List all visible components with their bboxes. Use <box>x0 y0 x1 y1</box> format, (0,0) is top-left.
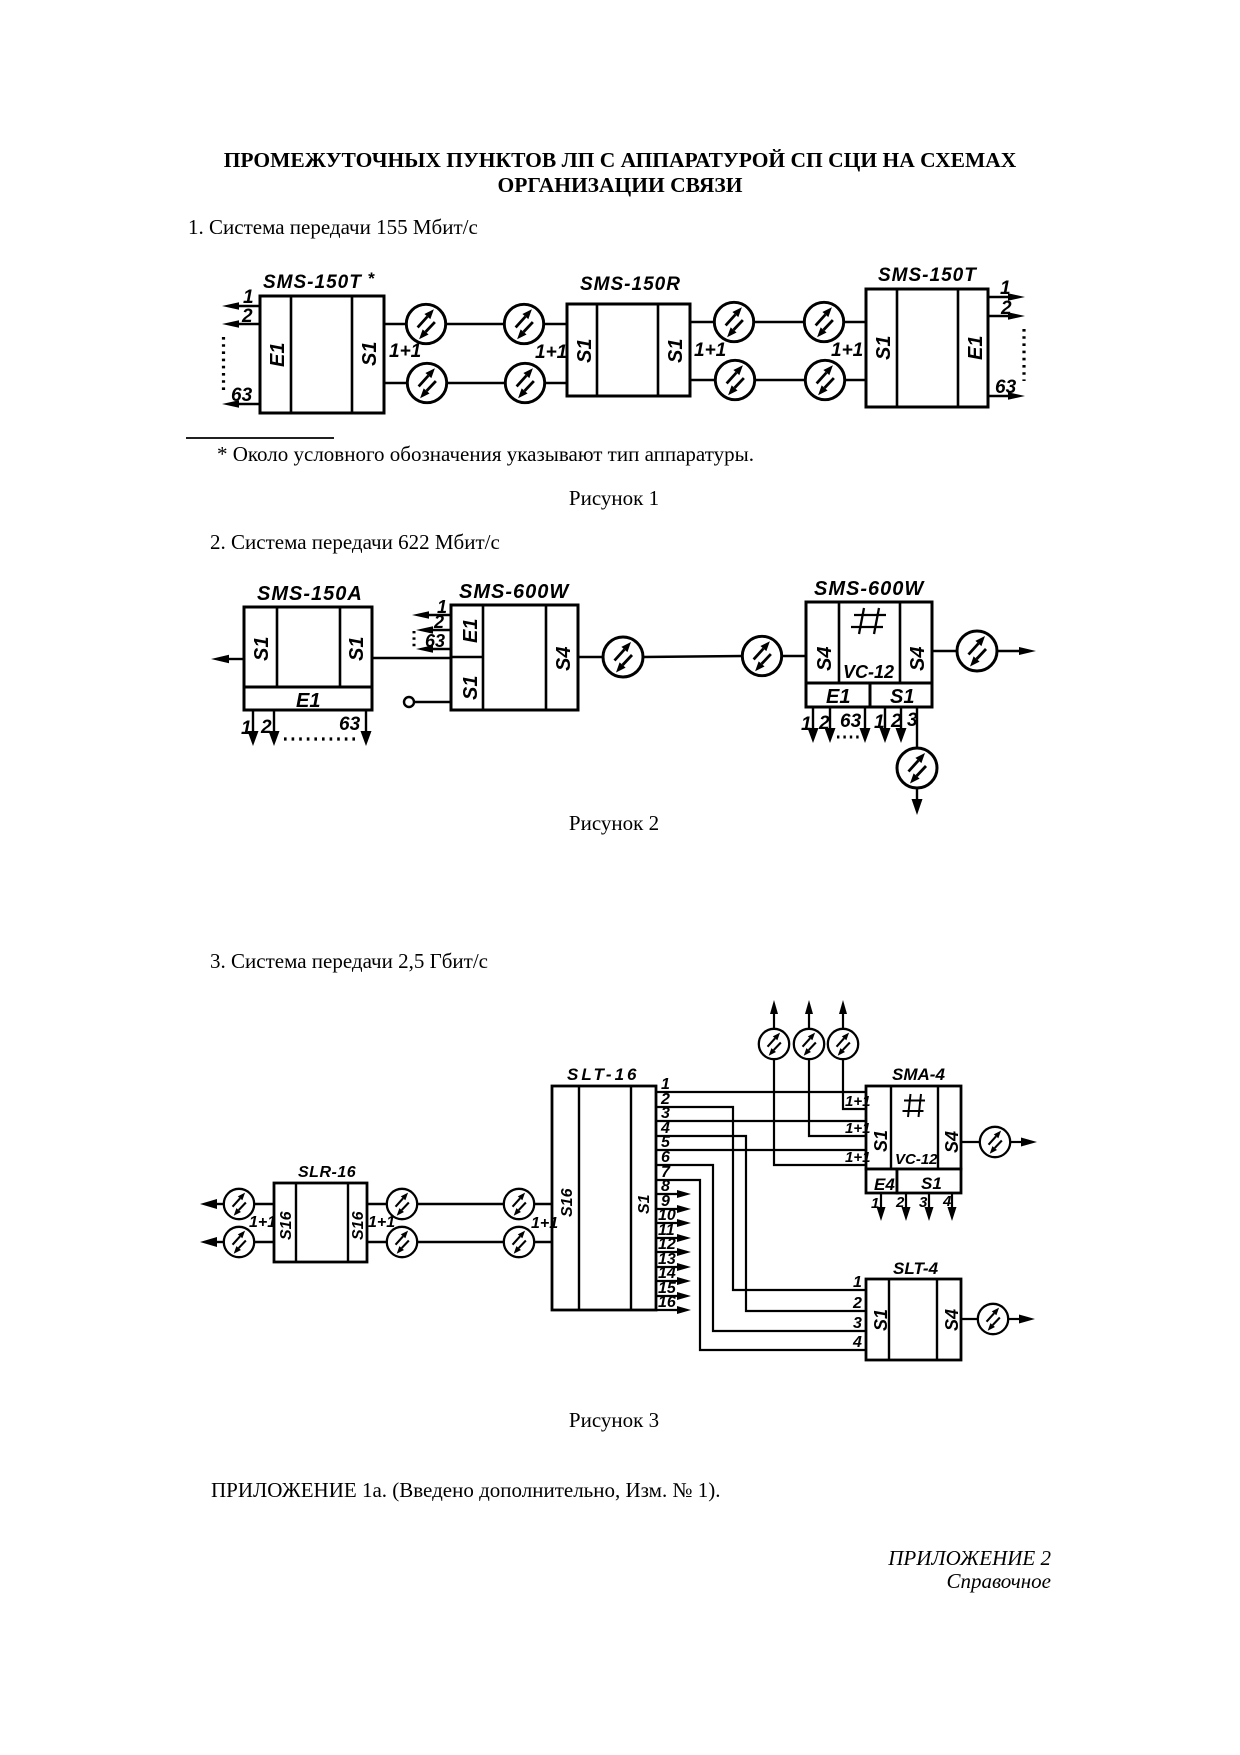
svg-text:E1: E1 <box>267 343 289 367</box>
svg-text:S1: S1 <box>574 339 596 363</box>
svg-text:SLT-4: SLT-4 <box>893 1259 939 1278</box>
tributary down arrow 63 of SMS-150A <box>339 710 372 746</box>
svg-text:16: 16 <box>658 1294 676 1311</box>
caption figure 1 <box>0 488 1234 509</box>
svg-text:S16: S16 <box>350 1211 367 1240</box>
svg-text:S1: S1 <box>871 1130 891 1152</box>
document heading line 2 <box>0 175 1240 197</box>
svg-text:3: 3 <box>919 1194 928 1211</box>
svg-text:2: 2 <box>895 1194 905 1211</box>
crossconnect matrix symbol of SMA-4 <box>903 1094 926 1117</box>
svg-text:3: 3 <box>853 1315 862 1332</box>
paragraph 1 <box>188 217 478 238</box>
svg-text:S1: S1 <box>346 637 368 661</box>
svg-text:1+1: 1+1 <box>535 342 567 363</box>
tributary down arrow 2 of E1 east SMS-600W <box>818 707 836 743</box>
optical transceiver (SLR-16 west top) <box>224 1189 254 1219</box>
east arrow of SLT-4 <box>1008 1315 1035 1324</box>
svg-text:1: 1 <box>874 712 885 733</box>
caption figure 2 <box>0 813 1234 834</box>
svg-text:1: 1 <box>1000 278 1011 299</box>
tributary down arrow 1 of SMA-4 <box>871 1193 886 1221</box>
optical transceiver (fig2 west) <box>603 637 643 677</box>
svg-text:2: 2 <box>260 717 272 738</box>
svg-text:SLR-16: SLR-16 <box>298 1164 356 1181</box>
output 2 of SLT-16 routed to SLT-4 input 1 <box>656 1091 866 1290</box>
svg-text:1+1: 1+1 <box>249 1214 276 1231</box>
optical transceiver (fig1 top 4) <box>804 302 843 341</box>
wire between optical transceivers (fig1 bottom 3-4) <box>755 379 805 381</box>
tributary arrow 2 of SMS-150T* <box>222 306 260 328</box>
svg-text:E1: E1 <box>296 690 320 712</box>
tributary arrow 1 of SMS-150T* <box>222 287 260 310</box>
svg-text:1: 1 <box>243 287 254 308</box>
svg-text:63: 63 <box>425 631 445 651</box>
svg-text:S16: S16 <box>278 1211 295 1240</box>
west arrow of SMS-150A <box>211 655 244 663</box>
svg-text:2: 2 <box>890 711 902 732</box>
wire east SMS-600W to optical module east <box>932 650 957 652</box>
output 16 of SLT-16 spare arrow <box>656 1294 691 1314</box>
footnote rule <box>186 437 334 439</box>
block SLT-4 <box>866 1279 961 1360</box>
svg-text:2: 2 <box>241 306 253 327</box>
svg-text:SMS-150A: SMS-150A <box>257 583 363 605</box>
optical transceiver (SLT-16 west top) <box>504 1189 534 1219</box>
tributary arrow 63 of SMS-150T* <box>222 385 260 408</box>
svg-text:S1: S1 <box>873 336 895 360</box>
east output arrow of fig2 <box>997 647 1036 655</box>
svg-text:S4: S4 <box>553 647 575 671</box>
svg-text:SMS-150R: SMS-150R <box>580 274 681 295</box>
output 15 of SLT-16 spare arrow <box>656 1280 691 1300</box>
wire SMS-150R to optical module (top right) <box>690 321 714 323</box>
svg-text:63: 63 <box>339 714 361 735</box>
wire between optical transceivers (fig1 top 3-4) <box>754 321 804 323</box>
paragraph 3 <box>210 951 488 972</box>
svg-text:63: 63 <box>840 711 862 732</box>
tributary arrow 2 of right SMS-150T <box>988 298 1025 320</box>
svg-text:S4: S4 <box>942 1309 962 1331</box>
wire S1 of SMS-150T* to optical module (bottom) <box>384 382 407 384</box>
paragraph appendix 1a <box>211 1480 720 1501</box>
svg-text:SMS-150T *: SMS-150T * <box>263 269 376 293</box>
svg-text:VC-12: VC-12 <box>895 1151 938 1168</box>
optical transceiver (fig2 east) <box>957 631 997 671</box>
wire optical module to east SMS-600W <box>782 655 806 657</box>
svg-text:S4: S4 <box>942 1131 962 1153</box>
svg-text:S16: S16 <box>559 1188 576 1217</box>
svg-text:1: 1 <box>871 1195 879 1212</box>
tributary arrow 1 of west SMS-600W <box>412 597 451 619</box>
svg-text:1+1: 1+1 <box>368 1214 395 1231</box>
svg-text:1+1: 1+1 <box>845 1149 870 1166</box>
svg-text:1+1: 1+1 <box>531 1215 558 1232</box>
svg-text:1+1: 1+1 <box>831 340 863 361</box>
svg-text:E1: E1 <box>460 619 482 643</box>
wire optical module to SMS-150T (bottom) <box>845 379 866 381</box>
block SLR-16 <box>274 1183 367 1262</box>
optical transceiver (fig2 south) <box>897 748 937 788</box>
tributary arrow 1 of right SMS-150T <box>988 278 1025 301</box>
wire west transceivers to SLR-16 <box>254 1204 274 1242</box>
svg-text:S4: S4 <box>907 647 929 671</box>
wire SMS-150A to SMS-600W <box>372 657 451 659</box>
output 11 of SLT-16 spare arrow <box>656 1222 691 1242</box>
protection transceiver 2 with up arrow and stub to SMA-4 <box>794 1000 866 1136</box>
svg-text:S1: S1 <box>636 1194 653 1214</box>
west arrow top of SLR-16 <box>200 1199 224 1209</box>
wire SMA-4 to east transceiver <box>961 1141 980 1143</box>
optical transceiver (SLT-4 east) <box>978 1304 1008 1334</box>
svg-text:SMA-4: SMA-4 <box>892 1065 945 1084</box>
output 12 of SLT-16 spare arrow <box>656 1236 691 1256</box>
output 9 of SLT-16 spare arrow <box>656 1193 691 1213</box>
svg-text:S1: S1 <box>251 637 273 661</box>
appendix 2 sublabel <box>946 1571 1051 1592</box>
protection transceiver 3 with up arrow and stub to SMA-4 <box>828 1000 866 1109</box>
tributary down arrow 1 of SMS-150A <box>241 710 259 746</box>
output 8 of SLT-16 spare arrow <box>656 1178 691 1198</box>
svg-text:1+1: 1+1 <box>845 1093 870 1110</box>
svg-text:1+1: 1+1 <box>845 1120 870 1137</box>
crossconnect matrix symbol of east SMS-600W <box>851 608 886 634</box>
wire SLR-16 to east transceivers <box>367 1204 387 1242</box>
wire S1 port 3 down to optical module <box>916 707 918 748</box>
block SMA-4 <box>866 1086 961 1193</box>
svg-text:2: 2 <box>1000 298 1012 319</box>
svg-text:E1: E1 <box>965 336 987 360</box>
output 4 of SLT-16 routed to SLT-4 input 2 <box>656 1120 866 1311</box>
tributary down arrow 2 of S1 east SMS-600W <box>890 707 907 743</box>
footnote text <box>217 444 754 465</box>
optical transceiver (SLT-16 west bottom) <box>504 1227 534 1257</box>
svg-text:S1: S1 <box>359 342 381 366</box>
output 3 of SLT-16 to SMA-4 <box>656 1105 866 1122</box>
svg-text:SLT-16: SLT-16 <box>567 1065 639 1084</box>
tributary down arrow 1 of E1 east SMS-600W <box>801 707 819 743</box>
wire SMS-150R to optical module (bottom right) <box>690 379 715 381</box>
optical transceiver (SLR-16 west bottom) <box>224 1227 254 1257</box>
caption figure 3 <box>0 1410 1234 1431</box>
optical transceiver (fig3 mid bottom) <box>387 1227 417 1257</box>
svg-text:2: 2 <box>433 612 444 632</box>
optical transceiver (fig1 bottom 2) <box>505 363 544 402</box>
document heading line 1 <box>0 150 1240 172</box>
svg-text:1+1: 1+1 <box>694 340 726 361</box>
svg-text:2: 2 <box>818 713 830 734</box>
wire west SMS-600W to optical module <box>578 656 603 658</box>
wire between optical transceivers (fig1 top 1-2) <box>446 323 504 325</box>
output 5 of SLT-16 to SMA-4 <box>656 1134 866 1151</box>
wire optical module to SMS-150R (bottom) <box>545 382 567 384</box>
block SMS-600W east <box>806 602 932 707</box>
wire S1 of SMS-150T* to optical module (top) <box>384 323 406 325</box>
svg-text:1: 1 <box>241 718 252 739</box>
ellipsis dotted line tributaries SMS-150A <box>284 737 358 740</box>
wire between fig2 optical modules <box>643 656 743 657</box>
tributary down arrow 4 of SMA-4 <box>942 1193 957 1221</box>
appendix 2 label <box>888 1548 1051 1569</box>
wire optical module to SMS-150T (top) <box>844 321 866 323</box>
optical transceiver (fig1 bottom 4) <box>805 360 844 399</box>
optical transceiver (fig1 top 2) <box>504 304 543 343</box>
svg-text:1: 1 <box>853 1274 862 1291</box>
paragraph 2 <box>210 532 500 553</box>
tributary down arrow 1 of S1 east SMS-600W <box>874 707 891 743</box>
output 10 of SLT-16 spare arrow <box>656 1207 691 1227</box>
ellipsis dotted line E1 tributaries east SMS-600W <box>837 736 860 739</box>
block SMS-150A <box>244 607 372 710</box>
optical transceiver (fig1 top 3) <box>714 302 753 341</box>
open terminal stub of west SMS-600W <box>404 697 451 707</box>
protection transceiver 1 with up arrow and stub to SMA-4 <box>759 1000 866 1165</box>
block SMS-150T* left terminal multiplexer <box>260 296 384 413</box>
tributary arrow 63 of right SMS-150T <box>988 377 1025 400</box>
optical transceiver (fig1 bottom 1) <box>407 363 446 402</box>
output 7 of SLT-16 routed to SLT-4 input 4 <box>656 1164 866 1350</box>
tributary arrow 63 of west SMS-600W <box>416 631 451 653</box>
tributary down arrow 2 of SMA-4 <box>895 1193 911 1221</box>
svg-text:S4: S4 <box>814 647 836 671</box>
block SMS-150R regenerator <box>567 304 690 396</box>
ellipsis dotted line tributaries SMS-150T* <box>222 337 225 392</box>
svg-text:S1: S1 <box>921 1174 942 1193</box>
svg-text:S1: S1 <box>890 686 914 708</box>
optical transceiver (fig1 top 1) <box>406 304 445 343</box>
optical transceiver (fig2 middle) <box>742 636 781 675</box>
block SLT-16 <box>552 1086 656 1310</box>
svg-text:S1: S1 <box>665 339 687 363</box>
optical transceiver (fig3 mid top) <box>387 1189 417 1219</box>
wire optical module to SMS-150R (top) <box>544 323 567 325</box>
block SMS-150T right terminal multiplexer <box>866 289 988 407</box>
south arrow below optical module <box>912 788 923 815</box>
svg-text:4: 4 <box>942 1193 952 1210</box>
svg-text:2: 2 <box>852 1295 862 1312</box>
tributary down arrow 63 of E1 east SMS-600W <box>840 707 871 743</box>
svg-text:SMS-150T: SMS-150T <box>878 265 977 286</box>
svg-text:E4: E4 <box>874 1175 895 1194</box>
output 13 of SLT-16 spare arrow <box>656 1251 691 1271</box>
tributary down arrow 2 of SMS-150A <box>260 710 280 746</box>
ellipsis dotted line tributaries west SMS-600W <box>413 631 416 648</box>
svg-text:4: 4 <box>852 1334 862 1351</box>
block SMS-600W west <box>451 605 578 710</box>
svg-text:E1: E1 <box>826 686 850 708</box>
tributary arrow 2 of west SMS-600W <box>416 612 451 634</box>
optical transceiver (SMA-4 east) <box>980 1127 1010 1157</box>
wire transceivers to SLT-16 <box>534 1204 552 1242</box>
svg-text:1: 1 <box>801 714 812 735</box>
wire between optical transceivers (fig1 bottom 1-2) <box>447 382 505 384</box>
svg-text:SMS-600W: SMS-600W <box>459 581 570 603</box>
svg-text:63: 63 <box>231 385 253 406</box>
output 14 of SLT-16 spare arrow <box>656 1265 691 1285</box>
east arrow of SMA-4 <box>1010 1138 1037 1147</box>
svg-text:63: 63 <box>995 377 1017 398</box>
tributary down arrow 3 of SMA-4 <box>919 1193 934 1221</box>
output 1 of SLT-16 to SMA-4 <box>656 1076 866 1093</box>
line wires between transceiver pairs fig3 <box>417 1204 504 1242</box>
svg-text:SMS-600W: SMS-600W <box>814 578 925 600</box>
ellipsis dotted line tributaries right SMS-150T <box>1022 329 1025 381</box>
svg-text:S1: S1 <box>871 1309 891 1331</box>
wire SLT-4 to east transceiver <box>961 1318 978 1320</box>
west arrow bottom of SLR-16 <box>200 1237 224 1247</box>
optical transceiver (fig1 bottom 3) <box>715 360 754 399</box>
svg-text:VC-12: VC-12 <box>843 662 894 682</box>
output 6 of SLT-16 routed to SLT-4 input 3 <box>656 1149 866 1331</box>
svg-text:S1: S1 <box>460 676 482 700</box>
svg-text:1+1: 1+1 <box>389 341 421 362</box>
